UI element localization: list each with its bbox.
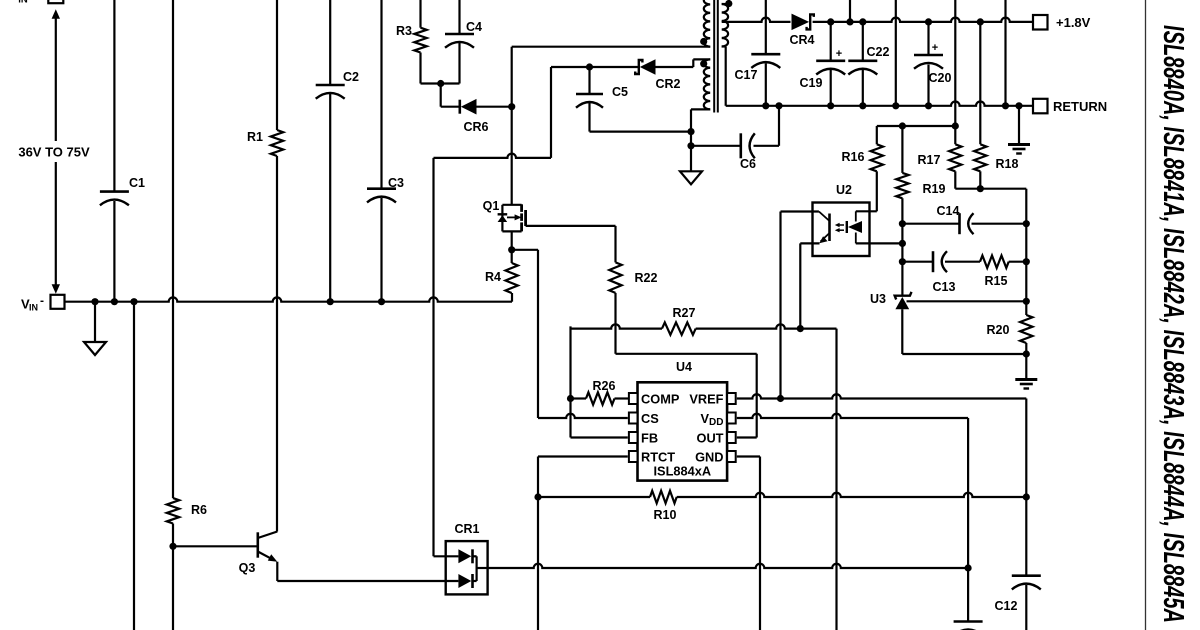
svg-text:COMP: COMP [641,391,680,406]
svg-text:OUT: OUT [696,430,723,445]
svg-text:U4: U4 [676,360,692,374]
svg-text:C14: C14 [937,204,960,218]
svg-text:C13: C13 [933,280,956,294]
svg-text:C5: C5 [612,85,628,99]
svg-text:CR4: CR4 [789,33,814,47]
svg-text:R20: R20 [987,323,1010,337]
svg-text:IN: IN [18,0,28,6]
svg-text:+: + [932,42,938,54]
svg-text:ISL8840A, ISL8841A, ISL8842A,: ISL8840A, ISL8841A, ISL8842A, ISL8843A, … [1157,25,1189,623]
svg-text:R1: R1 [247,130,263,144]
svg-text:+1.8V: +1.8V [1056,15,1091,30]
svg-text:C6: C6 [740,157,756,171]
svg-text:C2: C2 [343,70,359,84]
svg-text:R4: R4 [485,270,501,284]
svg-text:CS: CS [641,411,659,426]
svg-text:FB: FB [641,430,658,445]
svg-text:U3: U3 [870,292,886,306]
svg-text:GND: GND [695,449,723,464]
svg-text:R16: R16 [842,150,865,164]
svg-text:R18: R18 [996,157,1019,171]
svg-text:CR1: CR1 [454,522,479,536]
svg-text:R15: R15 [985,274,1008,288]
svg-text:IN: IN [29,302,38,312]
svg-text:RTCT: RTCT [641,449,675,464]
svg-text:R27: R27 [673,306,696,320]
svg-text:C19: C19 [800,76,823,90]
svg-text:CR6: CR6 [463,120,488,134]
svg-text:R22: R22 [635,271,658,285]
svg-text:C17: C17 [735,68,758,82]
svg-text:R17: R17 [918,153,941,167]
svg-text:ISL884xA: ISL884xA [653,464,711,479]
svg-text:C22: C22 [867,45,890,59]
svg-text:R26: R26 [593,379,616,393]
svg-text:C1: C1 [129,176,145,190]
svg-text:+: + [836,48,842,60]
svg-text:R3: R3 [396,24,412,38]
svg-text:RETURN: RETURN [1053,99,1107,114]
svg-text:R10: R10 [654,508,677,522]
svg-text:VREF: VREF [689,391,723,406]
svg-text:C12: C12 [995,599,1018,613]
svg-text:-: - [40,293,44,307]
svg-text:Q3: Q3 [239,561,256,575]
svg-text:R6: R6 [191,503,207,517]
svg-text:Q1: Q1 [483,199,500,213]
svg-text:C4: C4 [466,20,482,34]
svg-text:C20: C20 [929,71,952,85]
svg-text:CR2: CR2 [655,77,680,91]
svg-text:36V TO 75V: 36V TO 75V [18,145,90,160]
svg-text:R19: R19 [923,182,946,196]
svg-text:C3: C3 [388,176,404,190]
svg-text:U2: U2 [836,183,852,197]
